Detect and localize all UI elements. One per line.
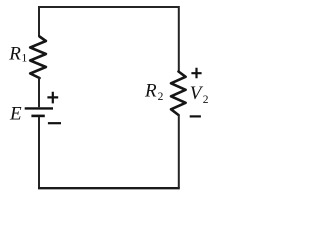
svg-text:R2: R2	[144, 81, 164, 104]
svg-text:V2: V2	[190, 83, 209, 106]
resistor R1	[30, 37, 46, 79]
wire: bottom side	[38, 187, 180, 189]
plus sign at top of R2 (V2 polarity)	[191, 68, 201, 79]
plus sign of battery E	[47, 92, 58, 104]
svg-text:R1: R1	[8, 43, 27, 64]
minus sign at bottom of R2 (V2 polarity)	[190, 115, 201, 117]
battery E: short negative plate	[31, 115, 44, 118]
resistor R2	[171, 72, 186, 116]
battery E: long positive plate	[25, 107, 53, 109]
minus sign of battery E	[48, 122, 61, 124]
wire: top side with left and right corners	[39, 7, 179, 72]
wire: left segment between R1 and battery E	[38, 78, 40, 108]
svg-text:E: E	[9, 104, 22, 125]
wire: right segment below R2 to bottom-right corner	[178, 115, 180, 188]
wire: left segment below battery to bottom-left corner	[38, 117, 40, 188]
